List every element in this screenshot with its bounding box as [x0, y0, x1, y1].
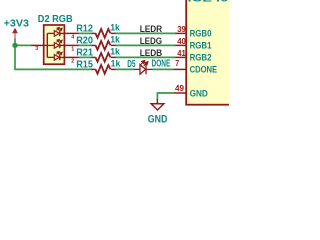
svg-text:1k: 1k: [110, 22, 120, 32]
svg-text:4: 4: [71, 34, 74, 40]
svg-text:1k: 1k: [110, 34, 120, 44]
svg-text:D5: D5: [127, 59, 136, 70]
svg-text:DONE: DONE: [152, 58, 171, 69]
svg-text:1k: 1k: [110, 46, 120, 56]
svg-text:2: 2: [71, 58, 74, 64]
svg-text:GND: GND: [190, 88, 209, 98]
svg-text:49: 49: [175, 83, 184, 93]
svg-text:LEDG: LEDG: [140, 36, 162, 46]
svg-text:RGB0: RGB0: [190, 28, 212, 38]
svg-text:1k: 1k: [111, 58, 121, 68]
svg-text:CDONE: CDONE: [190, 64, 218, 74]
svg-text:39: 39: [177, 24, 186, 34]
svg-text:RGB2: RGB2: [190, 52, 212, 62]
svg-text:GND: GND: [148, 113, 168, 125]
svg-text:R20: R20: [76, 35, 93, 46]
svg-text:R21: R21: [76, 47, 93, 58]
svg-text:R15: R15: [76, 59, 93, 70]
svg-text:R12: R12: [76, 23, 93, 34]
svg-text:7: 7: [175, 58, 179, 68]
svg-text:iCE40: iCE40: [188, 0, 229, 4]
svg-text:LEDR: LEDR: [140, 24, 163, 34]
svg-text:40: 40: [177, 36, 186, 46]
svg-text:1: 1: [71, 46, 74, 52]
svg-text:RGB1: RGB1: [190, 40, 212, 50]
svg-text:41: 41: [177, 48, 186, 58]
svg-text:D2 RGB: D2 RGB: [38, 14, 73, 25]
svg-text:LEDB: LEDB: [140, 48, 163, 58]
svg-text:+3V3: +3V3: [4, 19, 30, 30]
svg-text:3: 3: [35, 46, 38, 52]
